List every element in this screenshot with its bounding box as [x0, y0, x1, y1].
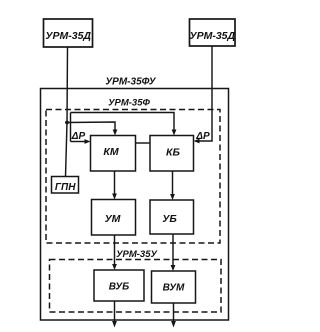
svg-text:ВУБ: ВУБ: [109, 282, 129, 293]
svg-text:ΔР: ΔР: [195, 131, 210, 142]
wire dP into KM left: [71, 141, 87, 143]
block VUB: [94, 270, 144, 301]
svg-text:УРМ-35У: УРМ-35У: [116, 249, 158, 260]
block URM-35D left: [44, 19, 93, 47]
svg-text:КБ: КБ: [166, 147, 180, 159]
arrowhead into KM top: [113, 130, 118, 136]
wire to KM top: [67, 122, 115, 132]
wire VUM output: [173, 303, 175, 323]
block KB: [150, 136, 194, 172]
wire to KB top: [71, 113, 175, 133]
wire KB to UB: [172, 171, 174, 196]
arrowhead VUM output: [171, 321, 176, 328]
arrowhead VUB output: [112, 321, 117, 328]
dashed unit box URM-35U: [50, 260, 222, 313]
svg-text:УМ: УМ: [105, 213, 121, 225]
svg-text:УБ: УБ: [162, 213, 177, 225]
arrowhead into VUB top: [112, 264, 117, 270]
arrowhead into KB top: [172, 130, 177, 136]
svg-text:УРМ-35Ф: УРМ-35Ф: [108, 98, 150, 109]
svg-text:ГПН: ГПН: [55, 182, 76, 193]
dashed unit box URM-35F: [46, 110, 220, 244]
svg-text:УРМ-35Д: УРМ-35Д: [45, 30, 91, 42]
wire UB to VUM: [172, 234, 174, 267]
block URM-35D right: [190, 19, 236, 46]
outer unit box URM-35FU: [41, 89, 229, 321]
wire left URM-35D down to GPN: [66, 47, 68, 177]
svg-text:КМ: КМ: [103, 146, 118, 158]
svg-text:ВУМ: ВУМ: [163, 283, 185, 294]
block GPN: [52, 177, 79, 194]
block UM: [92, 200, 136, 236]
wire UM to VUB: [114, 235, 116, 266]
arrowhead into KM left: [85, 139, 91, 144]
svg-text:ΔР: ΔР: [71, 131, 86, 142]
wire KM to UM: [114, 171, 116, 196]
arrowhead into KB right: [194, 139, 200, 144]
wire bracket vertical: [70, 113, 72, 142]
junction node on left line: [65, 121, 69, 125]
block KM: [91, 136, 136, 172]
wire right URM-35D down into KB right: [198, 46, 212, 141]
svg-text:УРМ-35Д: УРМ-35Д: [189, 30, 235, 42]
arrowhead into UB top: [170, 194, 175, 200]
block UB: [150, 200, 194, 234]
wire VUB output: [114, 301, 116, 323]
arrowhead into UM top: [112, 194, 117, 200]
arrowhead into VUM top: [171, 265, 176, 271]
block VUM: [152, 271, 196, 303]
wire KM to KB: [136, 142, 151, 144]
svg-text:УРМ-35ФУ: УРМ-35ФУ: [105, 77, 156, 88]
